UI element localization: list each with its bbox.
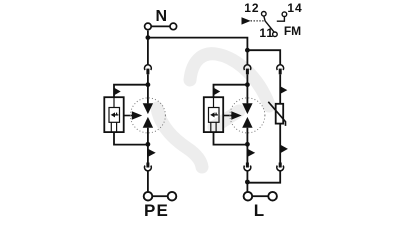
wire spark gap to lower junction left — [147, 128, 149, 163]
svg-text:PE: PE — [144, 201, 169, 220]
wire junction to trigger box left — [114, 85, 148, 98]
breakdown direction marker left — [148, 149, 156, 157]
spark gap electrodes left — [143, 103, 153, 127]
node lower junction right — [245, 142, 250, 147]
arrow marker varistor bottom — [280, 145, 288, 154]
trigger circuit box left — [104, 97, 123, 132]
wire lower junction to trigger box bottom left — [114, 132, 148, 145]
node L junction — [245, 180, 250, 185]
svg-text:FM: FM — [284, 24, 301, 38]
plug-in disconnect contact top varistor — [277, 65, 284, 74]
plug-in disconnect contact bottom right — [244, 163, 251, 171]
node N bus junction — [146, 35, 151, 40]
wire L junction to varistor branch bottom — [247, 171, 280, 183]
remote contact FM actuator dashed link — [251, 20, 264, 22]
wire bus to varistor branch — [247, 50, 280, 65]
plug-in disconnect contact top right — [244, 65, 251, 74]
wire left branch top — [147, 38, 149, 66]
wire N terminal to bus — [147, 31, 149, 39]
spark gap enclosure dashed circle right — [230, 98, 265, 133]
node right branch junction — [245, 48, 250, 53]
arrow marker varistor top — [280, 86, 287, 94]
arrow marker on trigger wire right — [214, 88, 221, 95]
trigger arrow into spark gap right — [223, 111, 242, 120]
wire junction to trigger box right — [214, 85, 248, 98]
changeover contact arm — [264, 16, 274, 32]
svg-text:N: N — [156, 8, 168, 25]
plug-in disconnect contact top left — [145, 65, 152, 74]
node lower junction left — [146, 142, 151, 147]
contact 12 circle — [262, 12, 267, 17]
wire to PE terminal — [147, 171, 149, 192]
wire top bus N to right — [148, 38, 248, 51]
spark gap electrodes right — [242, 103, 252, 127]
spark gap enclosure dashed circle left — [130, 98, 165, 133]
varistor body — [268, 102, 285, 126]
terminal PE circles — [144, 192, 177, 201]
trigger arrow into spark gap left — [124, 111, 143, 120]
contact 11 circle — [273, 32, 278, 37]
wire to spark gap left — [147, 74, 149, 103]
node trigger tap left — [146, 82, 151, 87]
contact 14 throw hook — [277, 17, 285, 22]
node trigger tap right — [245, 82, 250, 87]
arrow marker on trigger wire left — [114, 88, 121, 95]
svg-text:14: 14 — [287, 1, 302, 15]
wire to L junction — [246, 171, 248, 192]
wire spark gap to lower junction right — [246, 128, 248, 163]
svg-text:L: L — [254, 201, 264, 220]
plug-in disconnect contact bottom left — [145, 163, 152, 171]
svg-text:12: 12 — [244, 1, 259, 15]
breakdown direction marker right — [247, 149, 255, 157]
wire to spark gap right — [246, 74, 248, 103]
remote contact FM actuator arrow — [242, 17, 251, 24]
plug-in disconnect contact bottom varistor — [277, 163, 284, 171]
wire varistor branch lower — [279, 124, 281, 163]
wire right spark branch top — [246, 50, 248, 65]
trigger circuit box right — [204, 97, 223, 132]
contact 14 circle — [282, 12, 287, 17]
wire varistor branch upper — [279, 74, 281, 104]
terminal N circles — [145, 23, 177, 30]
watermark logo — [157, 54, 269, 167]
terminal L circles — [244, 192, 277, 201]
svg-text:11: 11 — [259, 26, 274, 40]
wire lower junction to trigger box bottom right — [214, 132, 248, 145]
